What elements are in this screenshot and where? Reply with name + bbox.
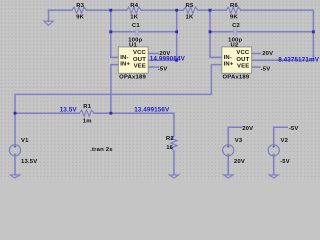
svg-text:14.999064V: 14.999064V — [150, 55, 186, 62]
svg-text:V2: V2 — [281, 138, 289, 144]
svg-text:R3: R3 — [76, 3, 84, 9]
svg-text:OUT: OUT — [236, 57, 249, 63]
svg-text:R6: R6 — [230, 3, 238, 9]
svg-text:9K: 9K — [230, 15, 238, 21]
svg-text:-5V: -5V — [261, 66, 271, 72]
svg-text:20V: 20V — [242, 126, 253, 132]
svg-text:13.5V: 13.5V — [60, 106, 78, 113]
svg-text:1K: 1K — [130, 15, 138, 21]
svg-text:8.4375171mV: 8.4375171mV — [278, 56, 320, 63]
svg-text:-5V: -5V — [280, 159, 290, 165]
svg-text:V1: V1 — [21, 138, 29, 144]
svg-text:VEE: VEE — [237, 64, 249, 70]
svg-text:IN-: IN- — [120, 55, 128, 61]
svg-text:.tran 2s: .tran 2s — [90, 147, 113, 153]
svg-text:13.499156V: 13.499156V — [134, 106, 170, 113]
svg-text:V3: V3 — [235, 138, 243, 144]
svg-text:R1: R1 — [83, 104, 91, 110]
svg-text:1m: 1m — [83, 119, 92, 125]
svg-text:VCC: VCC — [133, 50, 147, 56]
svg-text:OPAx189: OPAx189 — [119, 74, 146, 80]
svg-text:OPAx189: OPAx189 — [223, 74, 250, 80]
svg-text:-5V: -5V — [158, 66, 168, 72]
svg-text:IN+: IN+ — [224, 62, 234, 68]
svg-text:IN-: IN- — [224, 55, 232, 61]
svg-text:100p: 100p — [228, 37, 242, 43]
svg-text:100p: 100p — [128, 37, 142, 43]
svg-text:VEE: VEE — [134, 64, 146, 70]
svg-text:9K: 9K — [76, 15, 84, 21]
svg-text:13.5V: 13.5V — [21, 159, 37, 165]
svg-text:R5: R5 — [186, 3, 194, 9]
svg-text:OUT: OUT — [133, 57, 146, 63]
svg-text:16: 16 — [166, 145, 173, 151]
svg-text:R4: R4 — [130, 3, 138, 9]
svg-text:R2: R2 — [166, 136, 174, 142]
svg-text:20V: 20V — [234, 159, 245, 165]
svg-text:C1: C1 — [132, 23, 140, 29]
svg-text:-5V: -5V — [289, 126, 299, 132]
svg-text:C2: C2 — [232, 23, 240, 29]
svg-text:1K: 1K — [186, 15, 194, 21]
svg-text:VCC: VCC — [236, 50, 250, 56]
svg-text:IN+: IN+ — [120, 62, 130, 68]
svg-text:20V: 20V — [262, 51, 273, 57]
